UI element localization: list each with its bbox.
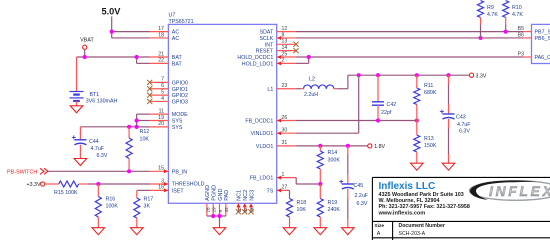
- wire ground bus under IC: [207, 216, 226, 228]
- svg-text:BAT: BAT: [172, 61, 183, 67]
- pin 19 SYS stub: [150, 115, 169, 121]
- junction SYS rail: [127, 118, 139, 129]
- junction FB_DCDC1 taps: [376, 118, 419, 122]
- svg-text:22pf: 22pf: [381, 110, 392, 116]
- svg-text:GPIO0: GPIO0: [172, 80, 188, 86]
- svg-text:16: 16: [158, 185, 164, 191]
- wire VBAT rail to BAT pins: [77, 57, 150, 63]
- svg-text:TPS65721: TPS65721: [169, 19, 194, 25]
- svg-text:HOLD_LDO1: HOLD_LDO1: [242, 61, 274, 67]
- svg-text:R17: R17: [144, 197, 154, 203]
- svg-text:SYS: SYS: [172, 125, 183, 131]
- resistor R12 10K: [126, 127, 149, 171]
- svg-text:5: 5: [161, 89, 164, 95]
- svg-text:2: 2: [282, 58, 285, 64]
- pin 4 GPIO3 stub with no-connect X: [147, 96, 168, 104]
- power symbol 5.0V: [102, 7, 122, 38]
- svg-text:SYS: SYS: [172, 119, 183, 125]
- svg-text:GPIO2: GPIO2: [172, 93, 188, 99]
- capacitor C45 2.2uF 6.3V: [339, 146, 369, 228]
- battery BT1 3V6 130mAH: [70, 57, 118, 106]
- svg-text:2.2uF: 2.2uF: [355, 193, 369, 199]
- svg-text:AGND: AGND: [205, 185, 211, 201]
- svg-text:PB_IN: PB_IN: [172, 169, 187, 175]
- svg-text:VLDO1: VLDO1: [256, 144, 273, 150]
- svg-text:25: 25: [282, 51, 288, 57]
- svg-text:17: 17: [158, 26, 164, 32]
- svg-text:PB7_S: PB7_S: [535, 30, 550, 36]
- svg-text:3V6 130mAH: 3V6 130mAH: [86, 99, 118, 105]
- svg-text:2.2uH: 2.2uH: [304, 92, 318, 98]
- svg-text:4.7K: 4.7K: [512, 12, 523, 18]
- svg-text:INT: INT: [265, 42, 274, 48]
- svg-text:AC: AC: [172, 36, 180, 42]
- bottom NC1 NC2 NC3 pins with no-connect X and rotated numbers: [236, 203, 255, 214]
- pin 14 RESET stub with no-connect X: [277, 45, 299, 53]
- svg-text:4.7uF: 4.7uF: [457, 122, 471, 128]
- junction R16 tap: [96, 182, 100, 186]
- svg-text:R14: R14: [328, 150, 338, 156]
- pin 2 HOLD_LDO1 stub: [277, 58, 296, 66]
- wire SCLK to connector B6: [295, 37, 531, 39]
- svg-text:12: 12: [282, 26, 288, 32]
- power symbol 3.3V: [469, 73, 486, 79]
- svg-text:L1: L1: [267, 87, 273, 93]
- svg-text:10K: 10K: [140, 137, 150, 143]
- svg-text:23: 23: [282, 83, 288, 89]
- pin 11 MODE stub: [150, 108, 169, 114]
- pin 26 FB_DCDC1 stub: [277, 115, 296, 123]
- inductor L2 2.2uH: [295, 76, 336, 98]
- IC U7 reference label: [169, 13, 194, 26]
- svg-text:GPIO1: GPIO1: [172, 87, 188, 93]
- IC U7 TPS65721 body: [168, 24, 276, 203]
- svg-text:10K: 10K: [297, 207, 307, 213]
- pin 6 GPIO1 stub with no-connect X: [147, 83, 168, 91]
- title block company text: [378, 181, 470, 217]
- junction VLDO1 taps: [318, 144, 350, 148]
- svg-text:FB_DCDC1: FB_DCDC1: [245, 119, 273, 125]
- svg-text:7: 7: [161, 77, 164, 83]
- pin 23 L1 stub: [277, 83, 296, 89]
- pin 3 THRESHOLD stub: [150, 178, 169, 186]
- pin 16 ISET stub: [150, 185, 169, 193]
- pin 8 SCLK stub: [277, 32, 296, 40]
- wire ISET to R17: [137, 189, 150, 191]
- pin 25 HOLD_DCDC1 stub: [277, 51, 296, 59]
- wire 5.0V to AC pins: [112, 32, 150, 38]
- svg-text:PB-SWITCH: PB-SWITCH: [7, 170, 37, 176]
- svg-text:14: 14: [249, 207, 254, 213]
- svg-text:RESET: RESET: [256, 49, 274, 55]
- svg-text:SDAT: SDAT: [260, 30, 274, 36]
- ground below R18: [283, 228, 296, 235]
- svg-text:B5: B5: [518, 26, 524, 32]
- wire HOLD_DCDC1 to connector P3: [295, 56, 531, 58]
- resistor R19 240K: [317, 184, 340, 228]
- svg-text:30: 30: [282, 128, 288, 134]
- svg-text:300K: 300K: [328, 157, 341, 163]
- svg-text:P3: P3: [518, 51, 524, 57]
- junction R9 on B6 line: [478, 36, 482, 40]
- svg-text:1: 1: [282, 172, 285, 178]
- resistor R14 300K: [317, 146, 340, 184]
- resistor R15 100K: [45, 181, 88, 196]
- svg-text:PGND: PGND: [212, 185, 218, 201]
- wire SYS rail to MODE and SYS pins: [80, 114, 149, 127]
- svg-text:3: 3: [161, 178, 164, 184]
- svg-text:9: 9: [218, 210, 223, 213]
- svg-text:C42: C42: [387, 102, 397, 108]
- wire PB-SWITCH to PB_IN: [48, 170, 150, 172]
- junction R10 on B5 line: [504, 30, 508, 34]
- svg-text:18: 18: [158, 32, 164, 38]
- svg-text:R19: R19: [328, 200, 338, 206]
- svg-text:33: 33: [224, 207, 229, 213]
- junction R12 on PB_IN wire: [127, 169, 131, 173]
- wire VINLDO1 to rail: [295, 75, 359, 133]
- junction HOLD tie: [307, 55, 311, 59]
- pin 21 BAT stub: [150, 51, 169, 57]
- svg-text:NC3: NC3: [249, 190, 255, 201]
- junction rail taps: [357, 73, 451, 77]
- ground below C43: [442, 163, 455, 170]
- svg-text:4.7uF: 4.7uF: [91, 146, 105, 152]
- pin 20 SYS stub: [150, 121, 169, 127]
- off-page connector PB-SWITCH: [7, 168, 48, 175]
- svg-text:8: 8: [282, 32, 285, 38]
- pin 27 TS stub: [277, 185, 288, 193]
- svg-text:6: 6: [161, 83, 164, 89]
- svg-text:4.7K: 4.7K: [487, 12, 498, 18]
- svg-text:BAT: BAT: [172, 55, 183, 61]
- pin 15 PB_IN stub: [150, 166, 169, 174]
- pin 7 GPIO0 stub with no-connect X: [147, 77, 168, 85]
- bottom ground pins AGND PGND GND PAD stubs with rotated numbers: [205, 203, 229, 216]
- wire L2 output up to 3.3V rail: [336, 75, 469, 89]
- svg-text:680K: 680K: [424, 90, 437, 96]
- svg-text:R9: R9: [487, 5, 494, 11]
- svg-text:VINLDO1: VINLDO1: [251, 131, 274, 137]
- resistor R10 4.7K pull-up: [503, 1, 524, 32]
- pin 31 VLDO1 stub: [277, 140, 296, 146]
- wire R15 to THRESHOLD: [88, 183, 150, 185]
- IC U7 right pin names: [237, 30, 274, 195]
- resistor R13 150K: [414, 121, 437, 164]
- svg-text:PAD: PAD: [224, 190, 230, 201]
- svg-text:SCH-203-A: SCH-203-A: [399, 231, 426, 237]
- svg-text:R13: R13: [424, 136, 434, 142]
- svg-text:TS: TS: [267, 188, 274, 194]
- junction VBAT rail: [83, 55, 139, 59]
- svg-text:VBAT: VBAT: [80, 37, 94, 43]
- svg-text:ISET: ISET: [172, 188, 185, 194]
- svg-text:29: 29: [212, 207, 217, 213]
- svg-text:6.3V: 6.3V: [357, 201, 368, 207]
- svg-text:13: 13: [282, 39, 288, 45]
- svg-text:+3.3V: +3.3V: [27, 182, 41, 188]
- connector pin names B5 B6 P3: [518, 26, 524, 57]
- svg-text:C43: C43: [456, 114, 466, 120]
- pin 17 AC stub: [150, 26, 169, 32]
- svg-text:20: 20: [158, 121, 164, 127]
- ground below R19: [314, 228, 327, 235]
- wire FB_LDO1 to divider: [295, 178, 320, 184]
- svg-text:www.inflexis.com: www.inflexis.com: [378, 211, 426, 217]
- svg-text:MODE: MODE: [172, 112, 188, 118]
- svg-text:A: A: [377, 231, 381, 237]
- svg-text:NC2: NC2: [243, 190, 249, 201]
- power symbol 1.8V: [368, 144, 386, 150]
- svg-text:27: 27: [282, 185, 288, 191]
- svg-text:U7: U7: [169, 13, 176, 19]
- svg-text:B6: B6: [518, 32, 524, 38]
- svg-text:HOLD_DCDC1: HOLD_DCDC1: [237, 55, 273, 61]
- ground below R16: [92, 228, 105, 235]
- pin 5 GPIO2 stub with no-connect X: [147, 89, 168, 97]
- svg-text:BT1: BT1: [90, 92, 100, 98]
- svg-text:R10: R10: [512, 5, 522, 11]
- svg-text:28: 28: [205, 207, 210, 213]
- svg-text:Size: Size: [375, 223, 385, 229]
- junction on ground bus: [211, 214, 222, 218]
- pin 18 AC stub: [150, 32, 169, 38]
- pin 12 SDAT stub: [277, 26, 296, 32]
- svg-text:31: 31: [282, 140, 288, 146]
- svg-text:5.0V: 5.0V: [102, 7, 122, 17]
- wire TS to R18: [288, 190, 290, 198]
- svg-text:C45: C45: [354, 183, 364, 189]
- pin 30 VINLDO1 stub: [277, 128, 296, 136]
- resistor R11 680K: [414, 75, 437, 120]
- Inflexis logo: [470, 180, 550, 200]
- svg-text:Document Number: Document Number: [399, 223, 445, 229]
- wire FB_DCDC1 to divider: [295, 120, 417, 122]
- svg-text:10: 10: [237, 207, 242, 213]
- title block border: [372, 177, 550, 240]
- wire SDAT to connector B5: [295, 31, 531, 33]
- svg-text:L2: L2: [309, 76, 315, 82]
- ground under IC: [213, 228, 226, 235]
- svg-text:R16: R16: [106, 197, 116, 203]
- svg-text:150K: 150K: [424, 143, 437, 149]
- svg-text:R18: R18: [297, 200, 307, 206]
- svg-text:GND: GND: [218, 189, 224, 201]
- svg-text:1.8V: 1.8V: [374, 144, 385, 150]
- svg-text:THRESHOLD: THRESHOLD: [172, 182, 205, 188]
- svg-text:19: 19: [158, 115, 164, 121]
- svg-text:4: 4: [161, 96, 164, 102]
- IC U7 bottom pin names: [205, 185, 255, 201]
- svg-text:C44: C44: [89, 139, 99, 145]
- svg-text:INFLEXIS: INFLEXIS: [489, 183, 550, 199]
- svg-text:Ph: 321-327-5957 Fax: 321-327: Ph: 321-327-5957 Fax: 321-327-5958: [379, 204, 470, 210]
- pin 1 FB_LDO1 stub: [277, 172, 296, 180]
- wire HOLD_LDO1 join: [295, 57, 309, 63]
- svg-text:3K: 3K: [144, 204, 151, 210]
- wire VLDO1 to 1.8V: [295, 145, 367, 147]
- capacitor C43 4.7uF 6.3V: [440, 75, 471, 163]
- title block size and document number: [375, 223, 445, 237]
- svg-text:R11: R11: [424, 83, 433, 89]
- svg-text:22: 22: [158, 58, 164, 64]
- junction 5.0V tee: [110, 30, 114, 34]
- svg-text:R15 100K: R15 100K: [54, 190, 78, 196]
- pin 13 INT stub with no-connect X: [277, 39, 299, 47]
- capacitor C44 4.7uF 6.3V: [72, 127, 108, 159]
- svg-text:GPIO3: GPIO3: [172, 99, 188, 105]
- svg-text:14: 14: [282, 45, 288, 51]
- resistor R17 3K: [134, 190, 153, 227]
- svg-text:NC1: NC1: [237, 190, 243, 201]
- svg-text:PA6_C: PA6_C: [535, 55, 550, 61]
- svg-text:SCLK: SCLK: [259, 36, 273, 42]
- svg-text:AC: AC: [172, 30, 180, 36]
- svg-text:3.3V: 3.3V: [476, 73, 487, 79]
- svg-text:FB_LDO1: FB_LDO1: [250, 176, 274, 182]
- ground below C44: [74, 159, 87, 166]
- ground below battery BT1: [70, 106, 83, 113]
- svg-text:Inflexis LLC: Inflexis LLC: [379, 181, 436, 192]
- pin 22 BAT stub: [150, 58, 169, 64]
- power symbol +3.3V: [27, 182, 45, 188]
- junction FB_LDO1 divider: [318, 182, 322, 186]
- connector P.. right edge: [532, 24, 550, 63]
- ground below R13: [411, 163, 424, 170]
- resistor R16 100K: [95, 184, 118, 228]
- svg-text:32: 32: [243, 207, 248, 213]
- ground below R17: [131, 228, 144, 235]
- svg-text:15: 15: [158, 166, 164, 172]
- svg-text:6.3V: 6.3V: [459, 128, 470, 134]
- resistor R18 10K: [287, 199, 307, 228]
- IC U7 left pin names: [172, 30, 205, 195]
- svg-text:26: 26: [282, 115, 288, 121]
- svg-text:100K: 100K: [106, 204, 119, 210]
- svg-text:6.3V: 6.3V: [97, 153, 108, 159]
- svg-text:PB6_S: PB6_S: [535, 36, 550, 42]
- svg-text:21: 21: [158, 51, 164, 57]
- svg-text:R12: R12: [140, 129, 150, 135]
- svg-text:240K: 240K: [328, 207, 341, 213]
- ground below C45: [342, 228, 355, 235]
- capacitor C42 22pf: [372, 75, 396, 120]
- resistor R9 4.7K pull-up: [478, 1, 499, 38]
- svg-text:11: 11: [159, 108, 164, 114]
- power symbol VBAT: [80, 37, 94, 57]
